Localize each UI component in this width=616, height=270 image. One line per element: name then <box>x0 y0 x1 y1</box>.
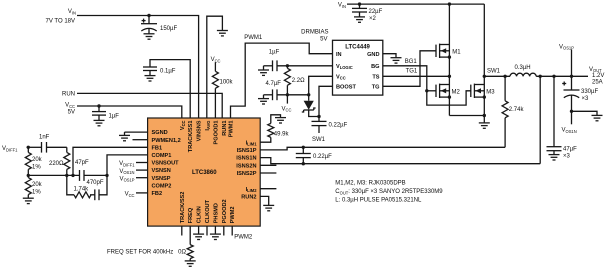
svg-text:L: 0.3µH PULSE PA0515.321NL: L: 0.3µH PULSE PA0515.321NL <box>335 198 422 204</box>
node VOUT junction 47uF <box>552 75 555 78</box>
wire BG to bottom gates <box>383 66 427 91</box>
wire ISNS1N return riser <box>539 76 541 163</box>
wire VCC pin of LTC4449 <box>309 76 333 95</box>
svg-text:1.2V: 1.2V <box>592 73 604 79</box>
capacitor 4.7uF (VCC bypass) <box>264 81 309 100</box>
svg-text:1%: 1% <box>32 164 41 170</box>
node VOUT junction 330uF <box>570 75 573 78</box>
svg-text:0.1µF: 0.1µF <box>160 69 176 75</box>
wire M3 source down <box>483 97 485 115</box>
wire VSNSN pin <box>136 169 148 171</box>
node 330uF bottom junction <box>570 110 573 113</box>
wire M2 source down <box>448 97 450 115</box>
op-amp/driver IC U2 LTC4449 <box>333 40 383 95</box>
svg-text:VINSNS: VINSNS <box>197 120 203 141</box>
svg-text:LTC4449: LTC4449 <box>345 45 370 51</box>
wire PWM1 pin to LTC4449 IN (DRMBIAS net) <box>231 43 333 118</box>
wire M1 source to SW1 <box>448 57 450 76</box>
svg-text:×2: ×2 <box>369 16 377 22</box>
wire ILIM1 to 49.9k <box>260 137 271 142</box>
svg-text:7V TO 18V: 7V TO 18V <box>46 19 75 25</box>
svg-text:M3: M3 <box>486 89 495 95</box>
capacitor 0.22uF (boost) <box>312 117 348 134</box>
svg-text:VCC: VCC <box>282 106 292 112</box>
svg-text:TRACK/SS2: TRACK/SS2 <box>180 192 186 224</box>
wire TS to SW1 <box>383 75 450 77</box>
svg-text:470pF: 470pF <box>87 180 104 186</box>
wire PWMEN1,2 stub <box>133 139 148 141</box>
svg-text:1.74k: 1.74k <box>74 186 90 192</box>
capacitor 0.22uF (sense filter) <box>296 147 332 163</box>
wire VCC 5V to Vcc pin <box>77 106 182 118</box>
svg-text:VLOGIC: VLOGIC <box>336 64 353 70</box>
wire ISNS1P sense line <box>260 147 505 150</box>
svg-text:49.9k: 49.9k <box>274 131 290 137</box>
svg-text:×3: ×3 <box>582 96 590 102</box>
svg-text:×3: ×3 <box>563 154 571 160</box>
wire VSNSOUT pin <box>136 162 148 164</box>
wire SGND to ground <box>125 131 148 133</box>
svg-text:VCC: VCC <box>65 103 75 109</box>
svg-text:VCC: VCC <box>336 75 346 81</box>
svg-text:100k: 100k <box>220 80 234 86</box>
svg-text:FB1: FB1 <box>152 145 163 151</box>
svg-text:22µF: 22µF <box>369 9 383 15</box>
wire 330uF return to ground <box>572 111 598 115</box>
svg-text:BG1: BG1 <box>405 59 418 65</box>
svg-text:330µF: 330µF <box>581 89 598 95</box>
svg-text:20k: 20k <box>32 182 43 188</box>
svg-text:ILIM2: ILIM2 <box>246 187 258 193</box>
svg-text:VSNSP: VSNSP <box>152 176 171 182</box>
svg-text:47pF: 47pF <box>75 160 89 166</box>
IC U1 LTC3860 <box>148 118 261 226</box>
svg-text:VIN: VIN <box>68 9 76 15</box>
wire TG to M1 gate <box>383 51 436 87</box>
svg-text:GND: GND <box>367 52 379 58</box>
wire CLKOUT stub <box>206 226 208 235</box>
ground (0.1uF) <box>145 76 156 81</box>
node VCC/1uF junction <box>97 104 100 107</box>
svg-text:FREQ SET FOR 400kHz: FREQ SET FOR 400kHz <box>107 250 173 256</box>
node source ground junction <box>483 114 486 117</box>
capacitor 22uF x2 (input ceramic) <box>352 4 383 22</box>
svg-text:1µF: 1µF <box>269 49 280 55</box>
node VLOGIC/2.2ohm junction <box>286 64 289 67</box>
svg-text:220Ω: 220Ω <box>49 161 64 167</box>
wire VOS1P sense <box>571 50 573 77</box>
ground (4.7uF) <box>258 99 269 104</box>
wire VOS1N sense stub <box>571 111 573 124</box>
svg-text:VOS1N: VOS1N <box>562 128 577 134</box>
svg-text:VCC: VCC <box>125 192 135 198</box>
svg-text:COUT: 330µF ×3 SANYO 2R5TPE330: COUT: 330µF ×3 SANYO 2R5TPE330M9 <box>335 189 443 195</box>
svg-text:CLKOUT: CLKOUT <box>205 199 211 223</box>
ground (SGND) <box>119 135 130 140</box>
ground (47uF) <box>549 155 560 160</box>
capacitor 47uF x3 (output ceramic) <box>547 76 578 159</box>
capacitor 1uF (VLOGIC bypass) <box>264 49 333 71</box>
wire BG to M3 gate (under M2) <box>427 91 471 105</box>
wire VIN rail to VINSNS pin <box>77 16 199 119</box>
resistor 20k upper (divider) <box>25 147 42 175</box>
svg-text:PWM1: PWM1 <box>244 35 263 41</box>
wire M2 gate lead <box>427 90 436 92</box>
svg-text:VCC: VCC <box>180 120 186 130</box>
ground (CLKIN) <box>193 234 204 239</box>
node VIN/22uF junction <box>358 2 361 5</box>
capacitor 1uF (VCC bypass) <box>92 106 119 120</box>
svg-text:VSNSN: VSNSN <box>152 168 171 174</box>
svg-text:0.22µF: 0.22µF <box>313 154 332 160</box>
capacitor 0.1uF (soft-start) <box>143 67 176 76</box>
svg-text:ISNS2N: ISNS2N <box>236 163 256 169</box>
wire TRACK/SS1 to 0.1uF <box>150 60 190 118</box>
ground (49.9k) <box>275 118 286 123</box>
node VCC label (driver supply) <box>286 93 289 96</box>
wire PWM2 stub <box>231 226 233 235</box>
ground (20k divider) <box>23 198 34 203</box>
svg-text:TG: TG <box>372 85 380 91</box>
wire VSNSP pin <box>136 177 148 179</box>
ground (0ohm) <box>185 261 196 266</box>
svg-text:RUN1: RUN1 <box>222 121 228 136</box>
svg-text:PHSMD: PHSMD <box>213 203 219 223</box>
wire VIN drop at right <box>483 4 485 76</box>
svg-text:1nF: 1nF <box>39 135 50 141</box>
diode D1 (BOOST schottky) <box>302 95 319 117</box>
resistor 2.74k (ISNS1P sense) <box>502 76 524 147</box>
node COMP1 junction <box>105 174 108 177</box>
svg-text:1µF: 1µF <box>109 114 120 120</box>
wire ISNS1N sense line <box>260 158 540 164</box>
node VCC/diode junction <box>307 93 310 96</box>
svg-text:IN: IN <box>336 52 342 58</box>
wire FB node bus <box>28 174 79 176</box>
svg-text:BOOST: BOOST <box>336 85 356 91</box>
svg-text:2.74k: 2.74k <box>509 107 525 113</box>
capacitor 470pF (comp) <box>87 175 108 200</box>
transistor M2 (bottom NMOS a) <box>436 76 460 99</box>
ground (1uF) <box>94 120 105 125</box>
node VIN/M1 drain junction <box>448 2 451 5</box>
svg-text:PGOOD2: PGOOD2 <box>222 199 228 223</box>
svg-text:TRACK/SS1: TRACK/SS1 <box>188 121 194 153</box>
svg-text:ISNS2P: ISNS2P <box>237 171 257 177</box>
node M2 gate junction <box>425 89 428 92</box>
ground (PHSMD) <box>210 234 221 239</box>
svg-text:150µF: 150µF <box>160 26 177 32</box>
svg-text:IAVG: IAVG <box>205 121 211 131</box>
svg-text:BG: BG <box>371 64 379 70</box>
capacitor 330uF x3 (output bulk, polarized) <box>562 76 598 111</box>
wire PGOOD2 stub <box>223 226 225 235</box>
svg-text:RUN: RUN <box>62 92 75 98</box>
svg-text:M2: M2 <box>452 89 461 95</box>
ground (1uF VLOGIC) <box>258 70 269 75</box>
svg-text:4.7µF: 4.7µF <box>266 81 282 87</box>
svg-text:ILIM1: ILIM1 <box>246 140 258 146</box>
svg-text:SW1: SW1 <box>312 137 326 143</box>
wire GND pin to ground <box>383 54 396 58</box>
resistor 1.74k (comp) <box>67 175 91 197</box>
resistor 49.9k (ILIM1) <box>268 115 290 138</box>
svg-text:FB2: FB2 <box>152 191 163 197</box>
node ISNS1P/cap junction <box>302 146 305 149</box>
node ISNS1N/cap junction <box>302 162 305 165</box>
node 20k junction <box>27 174 30 177</box>
node SW1 junction M3 <box>483 75 486 78</box>
svg-text:5V: 5V <box>68 110 75 116</box>
svg-text:VSNSOUT: VSNSOUT <box>152 161 180 167</box>
svg-text:0.22µF: 0.22µF <box>329 123 348 129</box>
svg-text:SGND: SGND <box>152 130 168 136</box>
svg-text:VOS1N: VOS1N <box>119 169 134 175</box>
wire BOOST pin to boost cap <box>319 86 333 116</box>
wire RUN2 to ground <box>260 196 269 205</box>
ground (330uF) <box>592 115 603 120</box>
resistor 2.2ohm (VLOGIC from VCC) <box>284 66 305 95</box>
wire FB1 pin <box>73 147 148 175</box>
svg-text:LTC3860: LTC3860 <box>192 170 217 176</box>
svg-text:2.2Ω: 2.2Ω <box>292 78 305 84</box>
svg-text:M1: M1 <box>452 49 461 55</box>
wire source ground bus <box>449 115 484 117</box>
transistor M3 (bottom NMOS b) <box>471 76 495 99</box>
node 220ohm junction <box>65 174 68 177</box>
wire VDIFF1 node <box>27 146 42 148</box>
svg-text:M1,M2, M3: RJK0305DPB: M1,M2, M3: RJK0305DPB <box>335 181 405 187</box>
svg-text:SW1: SW1 <box>487 69 501 75</box>
wire PHSMD to ground <box>214 226 216 234</box>
svg-text:5V: 5V <box>320 36 327 42</box>
svg-text:VIN: VIN <box>338 3 346 9</box>
svg-text:COMP2: COMP2 <box>152 183 172 189</box>
svg-text:0.3µH: 0.3µH <box>515 65 531 71</box>
wire ISNS2P stub <box>260 172 276 174</box>
svg-text:1%: 1% <box>32 190 41 196</box>
svg-text:COMP1: COMP1 <box>152 153 172 159</box>
node BOOST junction <box>317 115 320 118</box>
capacitor 1nF (feedforward) <box>39 135 50 153</box>
svg-text:20k: 20k <box>32 157 43 163</box>
svg-text:25A: 25A <box>592 79 603 85</box>
svg-text:VDIFF1: VDIFF1 <box>119 161 135 167</box>
svg-text:FREQ: FREQ <box>188 207 194 223</box>
svg-text:CLKIN: CLKIN <box>197 206 203 223</box>
ground (IAVG) <box>217 31 228 36</box>
wire IAVG to ground <box>207 16 223 118</box>
svg-text:TG1: TG1 <box>406 69 418 75</box>
svg-text:RUN2: RUN2 <box>241 195 256 201</box>
ground (RUN2) <box>263 205 274 210</box>
wire COMP1 pin <box>107 155 148 176</box>
inductor L1 0.3uH <box>484 65 588 76</box>
ground (LTC4449 GND) <box>391 58 402 63</box>
node FB1 drop junction <box>71 174 74 177</box>
svg-text:DRMBIAS: DRMBIAS <box>301 29 328 35</box>
ground (22uF) <box>354 17 365 22</box>
svg-text:PGOOD1: PGOOD1 <box>213 121 219 145</box>
svg-text:PWM2: PWM2 <box>234 234 253 240</box>
wire CLKIN to ground <box>198 226 200 234</box>
svg-text:ISNS1N: ISNS1N <box>236 156 256 162</box>
transistor M1 (top NMOS) <box>436 44 461 59</box>
ground (M2/M3 sources) <box>483 116 485 123</box>
svg-text:VDIFF1: VDIFF1 <box>2 146 18 152</box>
svg-text:47µF: 47µF <box>563 146 577 152</box>
node SW1/2.74k junction <box>503 75 506 78</box>
node VIN/150uF junction <box>147 14 150 17</box>
capacitor 47pF (comp) <box>75 160 107 181</box>
svg-text:TS: TS <box>372 75 379 81</box>
wire M1 drain <box>448 4 450 44</box>
resistor 100k (PGOOD1 pull-up) <box>212 62 233 118</box>
wire 1nF to 220 ohm <box>47 146 67 148</box>
node SW1 junction M1/M2 <box>448 75 451 78</box>
svg-text:PWMEN1,2: PWMEN1,2 <box>152 138 181 144</box>
wire ILIM2 stub <box>260 188 276 190</box>
svg-text:PWM2: PWM2 <box>230 207 236 224</box>
ground (150uF) <box>144 34 155 39</box>
wire ISNS2N stub <box>260 164 276 166</box>
node VDIFF1/20k junction <box>27 146 30 149</box>
svg-text:PWM1: PWM1 <box>229 121 235 138</box>
wire VIN rail (power stage) <box>347 3 484 5</box>
resistor 0ohm (FREQ set) <box>178 226 193 261</box>
resistor 20k lower (divider) <box>25 175 42 198</box>
resistor 220ohm <box>49 147 70 175</box>
svg-text:ISNS1P: ISNS1P <box>237 148 257 154</box>
svg-text:VOS1P: VOS1P <box>120 176 135 182</box>
wire FB2 pin <box>136 192 148 194</box>
svg-text:0Ω: 0Ω <box>178 250 186 256</box>
wire TRACK/SS2 stub <box>181 226 183 235</box>
capacitor 150uF (input bulk, polarized) <box>141 16 177 34</box>
wire RUN to RUN1 pin <box>77 93 222 118</box>
node VOUT junction ISNS1N <box>539 75 542 78</box>
